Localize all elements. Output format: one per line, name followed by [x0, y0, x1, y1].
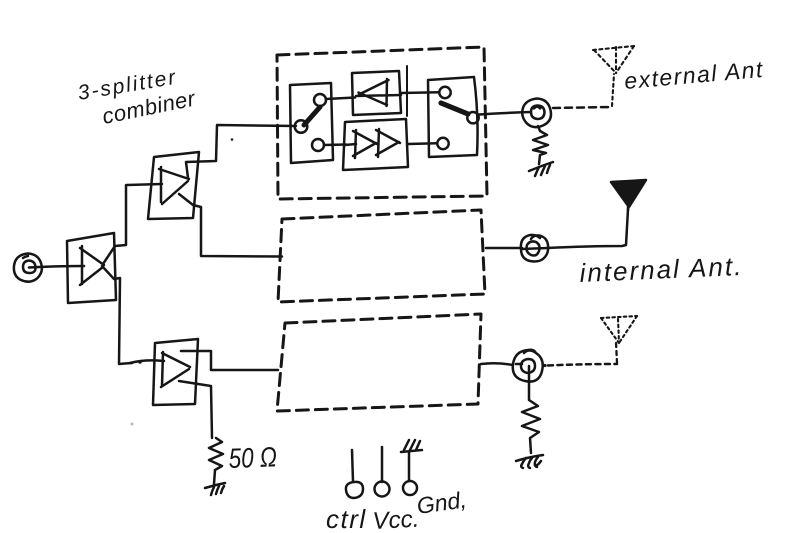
- pin Gnd wire: [408, 452, 411, 481]
- wire U2 to SW1 common: [186, 125, 296, 178]
- amplifier U1: [67, 233, 116, 303]
- wire J3 to internal antenna: [547, 209, 628, 248]
- module box top (dashed): [277, 47, 487, 199]
- resistor R3: [522, 381, 540, 453]
- wire bottom module to J4: [481, 363, 513, 365]
- port J3 internal: [521, 235, 548, 262]
- svg-text:external Ant: external Ant: [623, 56, 765, 94]
- pin Gnd circle: [403, 481, 417, 495]
- external antenna (dashed): [593, 46, 634, 73]
- amplifier U2: [148, 152, 199, 219]
- stray ink dot: [231, 138, 234, 141]
- ground for R2: [529, 162, 553, 176]
- svg-text:ctrl: ctrl: [326, 504, 367, 533]
- dashed wire J4 to aux antenna: [548, 364, 617, 366]
- stray vertical line: [406, 66, 408, 116]
- pin Vcc wire: [381, 447, 384, 482]
- switch SW1 box: [290, 83, 333, 163]
- module box middle (dashed): [278, 210, 485, 302]
- aux antenna (dashed): [601, 316, 637, 343]
- wire J1 to U1: [29, 266, 84, 268]
- ground for R1: [205, 483, 225, 495]
- wire SW1 to U5: [324, 143, 346, 146]
- pin ctrl circle: [346, 482, 363, 498]
- wire U1 to U2: [103, 184, 162, 264]
- port J2 external: [522, 99, 551, 128]
- svg-text:Vcc.: Vcc.: [372, 506, 420, 533]
- wire U3 to bottom module: [181, 351, 278, 370]
- input port J1: [14, 254, 42, 282]
- amplifier U3: [130, 339, 198, 405]
- wire SW2 to J2: [479, 112, 531, 115]
- SW2 common pole contact: [467, 112, 478, 123]
- wire middle module to J3: [486, 247, 522, 250]
- svg-text:Gnd,: Gnd,: [415, 486, 468, 519]
- wire U5 to SW2: [408, 142, 437, 145]
- label: 3-splitter combiner: [76, 66, 199, 129]
- faint smudge dot: [131, 423, 134, 426]
- ground for R3: [516, 455, 543, 468]
- wire U4 to SW2: [401, 91, 439, 94]
- wire U2 to middle module: [179, 194, 282, 257]
- SW2 arm: [441, 103, 468, 114]
- resistor R1: [209, 438, 223, 484]
- SW1 common pole contact: [295, 120, 308, 133]
- amplifier U5 (two-stage PA): [343, 119, 408, 170]
- SW1 arm: [304, 107, 320, 125]
- SW2 lower throw contact: [437, 138, 448, 149]
- module box bottom (dashed): [277, 314, 481, 411]
- wire SW1 to U4: [326, 98, 355, 100]
- internal antenna: [611, 180, 646, 210]
- wire U1 to U3: [102, 266, 132, 364]
- svg-text:internal Ant.: internal Ant.: [579, 251, 744, 288]
- SW2 upper throw contact: [439, 87, 450, 98]
- resistor R2: [533, 126, 548, 164]
- dashed wire J2 to external antenna: [553, 107, 612, 108]
- pin Vcc circle: [375, 482, 390, 497]
- switch SW2 box: [428, 77, 478, 157]
- pin ctrl wire: [352, 450, 353, 482]
- SW1 lower throw contact: [312, 139, 324, 151]
- wire U3 to R1: [179, 381, 212, 438]
- SW1 upper throw contact: [314, 94, 326, 106]
- port J4: [513, 350, 543, 382]
- svg-text:50 Ω: 50 Ω: [228, 442, 277, 475]
- amplifier U4 (RX LNA, left-pointing): [352, 71, 401, 115]
- small ground mark above Gnd pin: [401, 440, 422, 452]
